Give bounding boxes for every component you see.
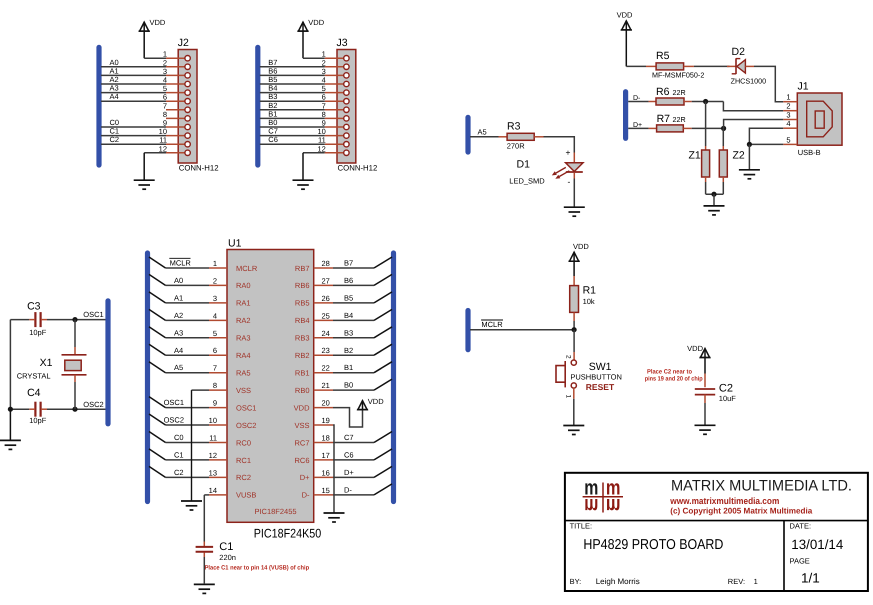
svg-text:R7: R7	[657, 113, 671, 125]
svg-text:4: 4	[786, 119, 790, 128]
svg-text:VDD: VDD	[308, 18, 324, 27]
svg-text:B3: B3	[344, 328, 353, 337]
svg-text:PAGE: PAGE	[790, 556, 810, 565]
svg-text:LED_SMD: LED_SMD	[509, 177, 545, 186]
svg-text:R1: R1	[583, 285, 597, 297]
svg-text:12: 12	[209, 451, 217, 460]
svg-text:PIC18F2455: PIC18F2455	[254, 507, 296, 516]
svg-text:9: 9	[213, 399, 217, 408]
svg-text:C6: C6	[344, 450, 354, 459]
svg-text:RB7: RB7	[295, 264, 310, 273]
svg-text:14: 14	[209, 486, 217, 495]
svg-text:1/1: 1/1	[801, 570, 820, 585]
svg-text:B2: B2	[344, 346, 353, 355]
svg-text:12: 12	[317, 144, 325, 153]
svg-text:B5: B5	[344, 293, 353, 302]
svg-text:m: m	[584, 494, 598, 517]
svg-text:RC1: RC1	[236, 456, 251, 465]
svg-text:A2: A2	[174, 311, 183, 320]
svg-text:B4: B4	[344, 311, 353, 320]
svg-text:C3: C3	[27, 301, 41, 313]
svg-text:D2: D2	[732, 46, 746, 58]
svg-text:R5: R5	[656, 50, 670, 62]
svg-text:(c) Copyright 2005 Matrix Mult: (c) Copyright 2005 Matrix Multimedia	[670, 506, 812, 515]
svg-text:CONN-H12: CONN-H12	[338, 163, 378, 172]
svg-text:RC2: RC2	[236, 473, 251, 482]
svg-text:D+: D+	[344, 468, 354, 477]
svg-text:3: 3	[786, 111, 790, 120]
svg-text:RB0: RB0	[295, 386, 310, 395]
svg-text:1: 1	[786, 93, 790, 102]
svg-text:RC6: RC6	[294, 456, 309, 465]
svg-text:OSC1: OSC1	[236, 403, 256, 412]
svg-text:5: 5	[213, 329, 217, 338]
svg-text:Leigh Morris: Leigh Morris	[596, 577, 640, 586]
svg-text:B1: B1	[344, 363, 353, 372]
svg-text:D-: D-	[302, 491, 310, 500]
svg-text:C6: C6	[268, 135, 278, 144]
svg-text:20: 20	[322, 399, 330, 408]
svg-text:10uF: 10uF	[719, 394, 737, 403]
svg-text:22: 22	[322, 364, 330, 373]
svg-text:12: 12	[159, 144, 167, 153]
svg-text:22R: 22R	[673, 88, 686, 97]
svg-text:3: 3	[213, 294, 217, 303]
svg-text:Z2: Z2	[733, 150, 745, 162]
svg-text:R3: R3	[507, 121, 521, 133]
svg-text:R6: R6	[656, 86, 670, 98]
svg-text:J1: J1	[798, 81, 809, 93]
svg-text:C1: C1	[219, 541, 233, 553]
svg-text:270R: 270R	[507, 142, 526, 151]
svg-text:A5: A5	[478, 128, 487, 137]
svg-text:7: 7	[213, 364, 217, 373]
svg-text:C2: C2	[110, 135, 120, 144]
svg-text:REV:: REV:	[728, 577, 745, 586]
svg-text:10pF: 10pF	[29, 416, 47, 425]
svg-text:C0: C0	[174, 433, 184, 442]
svg-text:VDD: VDD	[687, 344, 703, 353]
svg-text:25: 25	[322, 311, 330, 320]
svg-text:A4: A4	[174, 346, 183, 355]
svg-text:DATE:: DATE:	[790, 522, 812, 531]
svg-text:VDD: VDD	[617, 11, 633, 20]
svg-text:OSC2: OSC2	[236, 421, 256, 430]
svg-text:B7: B7	[344, 259, 353, 268]
svg-text:2: 2	[786, 102, 790, 111]
svg-text:B6: B6	[344, 276, 353, 285]
svg-text:RESET: RESET	[586, 382, 615, 392]
svg-text:U1: U1	[228, 238, 242, 250]
svg-text:A0: A0	[174, 276, 183, 285]
svg-text:A3: A3	[174, 328, 183, 337]
svg-text:VUSB: VUSB	[236, 491, 256, 500]
svg-text:6: 6	[213, 346, 217, 355]
svg-text:OSC1: OSC1	[164, 398, 184, 407]
svg-text:C2: C2	[719, 382, 733, 394]
svg-text:18: 18	[322, 434, 330, 443]
svg-text:Place C2 near to: Place C2 near to	[647, 368, 692, 375]
svg-text:15: 15	[322, 486, 330, 495]
svg-text:VDD: VDD	[573, 242, 589, 251]
svg-text:10pF: 10pF	[29, 328, 47, 337]
svg-text:21: 21	[322, 381, 330, 390]
svg-text:C1: C1	[174, 450, 184, 459]
svg-text:17: 17	[322, 451, 330, 460]
svg-text:pins 19 and 20 of chip: pins 19 and 20 of chip	[645, 376, 703, 383]
svg-text:RA0: RA0	[236, 281, 251, 290]
svg-text:MCLR: MCLR	[481, 320, 503, 329]
svg-text:J2: J2	[178, 37, 189, 49]
svg-text:OSC2: OSC2	[164, 416, 184, 425]
svg-text:C2: C2	[174, 468, 184, 477]
svg-text:2: 2	[565, 355, 572, 359]
svg-text:1: 1	[213, 259, 217, 268]
svg-text:TITLE:: TITLE:	[570, 522, 593, 531]
svg-text:10k: 10k	[583, 297, 595, 306]
svg-text:D1: D1	[517, 159, 531, 171]
svg-text:13/01/14: 13/01/14	[791, 537, 843, 552]
svg-text:1: 1	[754, 577, 758, 586]
svg-text:USB-B: USB-B	[798, 148, 821, 157]
svg-text:16: 16	[322, 468, 330, 477]
svg-text:CRYSTAL: CRYSTAL	[17, 371, 51, 380]
svg-text:220n: 220n	[219, 553, 236, 562]
svg-text:RA2: RA2	[236, 316, 251, 325]
svg-text:VDD: VDD	[294, 403, 310, 412]
svg-text:J3: J3	[337, 37, 348, 49]
svg-text:22R: 22R	[673, 115, 686, 124]
svg-text:A5: A5	[174, 363, 183, 372]
svg-text:SW1: SW1	[589, 361, 612, 373]
svg-text:8: 8	[213, 381, 217, 390]
svg-text:VSS: VSS	[294, 421, 309, 430]
svg-text:10: 10	[209, 416, 217, 425]
svg-text:C4: C4	[27, 387, 41, 399]
svg-text:26: 26	[322, 294, 330, 303]
svg-text:PIC18F24K50: PIC18F24K50	[254, 527, 322, 541]
svg-text:RB3: RB3	[295, 334, 310, 343]
svg-text:VSS: VSS	[236, 386, 251, 395]
svg-text:ZHCS1000: ZHCS1000	[731, 77, 767, 86]
svg-text:OSC1: OSC1	[83, 310, 103, 319]
svg-text:-: -	[568, 177, 571, 187]
svg-text:A4: A4	[110, 92, 119, 101]
svg-text:MF-MSMF050-2: MF-MSMF050-2	[652, 71, 704, 80]
svg-text:RC0: RC0	[236, 438, 251, 447]
svg-text:X1: X1	[40, 357, 53, 369]
svg-text:RC7: RC7	[294, 438, 309, 447]
svg-text:28: 28	[322, 259, 330, 268]
svg-text:VDD: VDD	[150, 18, 166, 27]
svg-text:Place C1 near to pin 14 (VUSB): Place C1 near to pin 14 (VUSB) of chip	[205, 565, 310, 572]
svg-text:19: 19	[322, 416, 330, 425]
svg-text:11: 11	[209, 434, 217, 443]
svg-text:D-: D-	[344, 485, 352, 494]
svg-text:Z1: Z1	[689, 150, 701, 162]
svg-text:m: m	[606, 494, 621, 517]
svg-text:RA1: RA1	[236, 299, 251, 308]
svg-text:RA5: RA5	[236, 369, 251, 378]
svg-text:RA4: RA4	[236, 351, 251, 360]
svg-text:VDD: VDD	[368, 397, 384, 406]
svg-text:www.matrixmultimedia.com: www.matrixmultimedia.com	[669, 496, 779, 506]
svg-text:RB2: RB2	[295, 351, 310, 360]
svg-text:C7: C7	[344, 433, 354, 442]
svg-text:RB5: RB5	[295, 299, 310, 308]
svg-text:13: 13	[209, 468, 217, 477]
svg-text:RB4: RB4	[295, 316, 310, 325]
svg-text:RB6: RB6	[295, 281, 310, 290]
svg-text:24: 24	[322, 329, 330, 338]
svg-text:OSC2: OSC2	[83, 400, 103, 409]
svg-text:1: 1	[565, 395, 572, 399]
svg-text:RB1: RB1	[295, 369, 310, 378]
svg-text:+: +	[566, 148, 571, 158]
svg-text:A1: A1	[174, 293, 183, 302]
svg-text:27: 27	[322, 276, 330, 285]
svg-text:MATRIX MULTIMEDIA LTD.: MATRIX MULTIMEDIA LTD.	[671, 477, 852, 494]
svg-text:MCLR: MCLR	[170, 259, 192, 268]
svg-text:4: 4	[213, 311, 217, 320]
svg-text:PUSHBUTTON: PUSHBUTTON	[570, 373, 622, 382]
svg-text:BY:: BY:	[570, 577, 582, 586]
svg-text:5: 5	[786, 135, 790, 144]
svg-text:RA3: RA3	[236, 334, 251, 343]
svg-text:2: 2	[213, 276, 217, 285]
svg-text:B0: B0	[344, 381, 353, 390]
svg-text:MCLR: MCLR	[236, 264, 258, 273]
svg-text:CONN-H12: CONN-H12	[179, 163, 219, 172]
svg-text:HP4829 PROTO BOARD: HP4829 PROTO BOARD	[583, 537, 723, 553]
svg-text:D+: D+	[300, 473, 310, 482]
svg-text:23: 23	[322, 346, 330, 355]
